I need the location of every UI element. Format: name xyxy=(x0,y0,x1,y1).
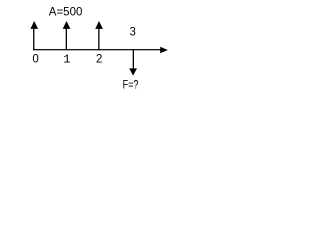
svg-text:1: 1 xyxy=(63,53,70,67)
svg-text:3: 3 xyxy=(130,27,136,39)
svg-text:0: 0 xyxy=(32,54,38,66)
svg-text:A=500: A=500 xyxy=(49,7,83,19)
svg-text:2: 2 xyxy=(96,54,102,66)
svg-text:F=?: F=? xyxy=(123,80,139,92)
